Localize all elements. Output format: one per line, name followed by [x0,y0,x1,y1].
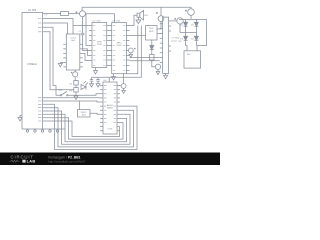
lcd LCD1 [66,34,80,70]
led D5 [81,81,88,90]
svg-text:U3 595: U3 595 [112,21,121,23]
svg-text:U1 328: U1 328 [28,8,37,12]
IC1 designator [93,21,102,23]
wire U1 pin1 to LCD top [43,19,73,35]
svg-text:595N: 595N [97,44,102,46]
footer bar [0,153,220,166]
svg-text:NANO: NANO [107,107,113,110]
source V9 [174,18,183,33]
wire IC2 to B1 [130,35,146,37]
mcu U1 [22,8,43,129]
wire LCD to IC1 a [83,49,92,56]
wire IC2 to J1 a [130,57,160,59]
module B2 [78,110,91,118]
motor M1 [184,51,201,68]
resistor R1 [61,12,69,16]
ground G7 [74,92,78,100]
wire U1 to U2 b [43,101,103,102]
wire IC2 to J1 b [130,60,160,62]
IC2 designator [112,21,121,23]
wire U2 top drop [108,77,110,82]
IC1 left pins [89,31,92,41]
wire B1 to J1 [157,32,163,34]
U2 designator [104,80,108,82]
IC1 pin labels [93,26,106,66]
svg-text:74HC: 74HC [97,42,103,44]
diode D2 [191,19,198,32]
source V6 [152,60,161,75]
switch SW1 [58,90,68,97]
IC2 pin labels [113,26,126,71]
wire U1 to U2 a [43,97,103,99]
shift register IC1 [92,23,107,68]
wire bus k1 [43,108,134,147]
source V8 [128,48,135,57]
wire bus k5 [43,121,120,137]
diode D1 [180,19,187,32]
capacitor C3 [96,77,100,87]
wire x73 to IC1 [73,25,92,27]
LCD1 left pins [63,44,66,67]
source V5 [117,74,126,94]
svg-text:Mot: Mot [187,53,191,56]
wire U1 pin3 long [43,27,60,95]
LCD1 right pins [80,44,83,67]
ground G8 [136,17,141,23]
svg-text:LAB: LAB [27,159,36,164]
svg-text:http://circuitlab.com/c/94e57: http://circuitlab.com/c/94e57 [48,159,86,163]
U2 right pins [117,86,120,131]
svg-text:5 V Reg: 5 V Reg [171,37,180,39]
ground G3 [94,68,98,75]
capacitor C2 [90,77,94,87]
wire top rail [82,7,191,8]
wire B1 corner [140,26,142,78]
diode D4 [191,33,198,46]
wire U1 pin4 long [43,32,74,90]
resistor R2 [70,77,79,86]
ground G2 [58,62,63,67]
wire U1 R1 feed [43,13,61,15]
wire IC2 to LS1 [130,15,138,25]
U2 pin labels [104,86,116,123]
wire y77 rail [92,76,142,78]
svg-text:74HC: 74HC [116,43,122,45]
wire B2 top [79,101,81,110]
footer credits [48,155,86,163]
diode D6 [150,40,154,55]
net label 5V [44,14,48,16]
svg-text:ICSP: ICSP [108,129,113,131]
wire bus k0 [43,104,137,149]
bridge mid rail [180,32,196,34]
wire V1 to IC2 top [86,14,115,23]
wire R1 to V1 [69,13,80,15]
ground G1 [18,116,22,122]
capacitor C1 [78,17,92,51]
wire V1 branch to IC1 [86,14,92,46]
resistor R3 [70,85,79,93]
U1 bottom pin circles [26,129,65,132]
shift register IC2 [112,23,127,74]
source V3 [185,9,194,20]
IC2 right pins [126,26,129,71]
resistor R5 [150,55,154,61]
svg-text:ATMEGA: ATMEGA [27,63,37,66]
wire U1 pin2 to LCD top [43,23,68,34]
net label 5V reg [171,37,182,42]
source V2 [156,7,164,29]
diode D3 [180,33,187,51]
wire LCD to IC1 b [83,53,92,60]
source V7 [71,70,78,77]
svg-text:595N: 595N [117,45,122,47]
speaker LS1 [137,10,149,20]
wire bus k3 [43,114,127,141]
ground G5 [164,74,168,79]
svg-text:ARDU: ARDU [107,104,113,107]
source V1 [75,7,85,16]
wire IC2 corner [126,26,137,74]
U2 left pins [100,86,103,131]
wire bus k2 [43,111,130,144]
wire bus k4 [43,118,123,139]
svg-text:U2 595: U2 595 [93,21,102,23]
wire SW1 to U2 [68,94,103,96]
bridge right wire [197,19,207,50]
svg-text:LCD1: LCD1 [70,38,76,40]
wire B2 to U2 [90,113,103,114]
connector J1 [160,17,177,73]
mcu U2 [103,82,117,134]
logo circuitlab [10,155,36,164]
bridge top rail [179,18,207,20]
wire IC2 gnd stub [112,74,116,80]
module B1 [146,26,158,40]
U1 right pin labels [38,19,42,122]
IC1 IC2 interconnect [107,26,112,66]
